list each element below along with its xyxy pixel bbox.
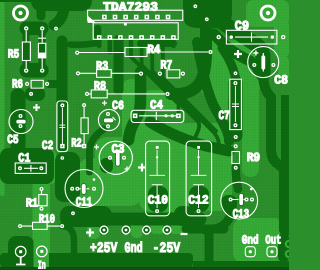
svg-text:R1: R1 (26, 197, 38, 211)
svg-text:C12: C12 (188, 193, 209, 207)
R4 leads (79, 51, 208, 54)
via top right blob 2 (205, 17, 209, 21)
pad R7 left (158, 72, 162, 76)
U1 pin 12 pad (155, 15, 160, 20)
pad R5 bottom (24, 68, 28, 72)
pad square Gnd2 (142, 226, 151, 235)
copper strip input channel (R1 R10 In) (33, 177, 51, 270)
copper pour centre tail below C10 (148, 203, 193, 234)
svg-text:C10: C10 (148, 193, 168, 207)
pad C9 right (281, 35, 285, 39)
plus mark left of C6 (102, 101, 107, 106)
svg-text:R10: R10 (39, 212, 55, 226)
C6 pads (106, 112, 110, 116)
copper pour right of C9 (274, 20, 289, 58)
svg-text:R3: R3 (96, 60, 108, 74)
wire R3 pad lobe down to C3 (129, 72, 141, 140)
copper pour around C3 (95, 137, 143, 179)
R10 leads (22, 225, 60, 227)
wire under IC vertical fat (114, 40, 124, 90)
pad D1 bottom (40, 68, 44, 72)
wire stub from U1 pin1 to column (70, 43, 97, 45)
plus mark left of C3 (94, 145, 99, 150)
C3 plus mark (125, 167, 130, 172)
svg-text:C6: C6 (112, 99, 124, 113)
D1 leads (38, 31, 46, 68)
U1 pin 1 pad (97, 35, 102, 40)
copper patch left of +25V pad (87, 220, 100, 239)
capacitor C2 body (57, 101, 68, 152)
copper band above power pads (94, 213, 200, 226)
board bottom band right (193, 261, 289, 268)
copper inside IC lower rect left (94, 25, 102, 39)
bright curl mark right edge lower (286, 251, 292, 257)
connector pad Gnd power 2 (143, 226, 151, 234)
wire diagonal 4 (163, 40, 216, 131)
connector pad In (37, 246, 48, 257)
via below C11 (71, 211, 75, 215)
connector pad Out (267, 247, 277, 257)
C4 internal symbol (139, 112, 176, 121)
capacitor C9 body (226, 30, 277, 44)
op-amp U1 TDA7293 outline upper (88, 10, 183, 20)
copper pour top right corner (246, 0, 289, 27)
C3 capsule (116, 150, 121, 167)
copper region input ground pad (8, 236, 34, 268)
board bottom edge dark (0, 267, 289, 270)
R5 leads (25, 31, 27, 68)
U1 pin 8 pad (134, 15, 139, 20)
R1 leads (41, 191, 43, 207)
copper right edge column (281, 95, 289, 235)
copper pour behind C4 label (143, 90, 182, 112)
wire C9 left pad (203, 29, 219, 37)
C1 internal symbol (24, 165, 38, 172)
wire diagonal 1 IC to C4 right pad (131, 40, 179, 113)
C4 inner dots (164, 114, 167, 117)
C4 left square pad (133, 114, 138, 119)
wire between C3 and C2 down to C11 (90, 129, 105, 172)
copper pour left of C7 (214, 82, 228, 122)
plus mark right of C5 (33, 104, 40, 111)
input ground stem (16, 257, 26, 265)
pad R3 left (76, 71, 80, 75)
wire branch down to C7 C13 lane (197, 42, 229, 141)
U1 upper pad row (102, 15, 170, 20)
copper C7 lane (229, 76, 243, 142)
pad R5 top (24, 26, 28, 30)
R9 pads (234, 144, 238, 148)
D1 cathode band (38, 53, 45, 58)
svg-text:C5: C5 (7, 133, 19, 147)
C11 lead line (79, 188, 81, 190)
pad R8 right (165, 92, 169, 96)
svg-text:C4: C4 (150, 99, 163, 113)
copper blob C13 left (221, 195, 237, 213)
wire blob to C8 stripe (214, 34, 258, 70)
svg-text:TDA7293: TDA7293 (103, 0, 158, 14)
svg-text:Gnd: Gnd (125, 241, 143, 257)
U1 pin 6 pad (123, 15, 128, 20)
svg-text:In: In (38, 259, 46, 270)
via below C7 (234, 135, 238, 139)
C13 via dot (250, 188, 253, 191)
board bottom edge shadow (0, 267, 289, 270)
pad R4 left (75, 51, 79, 55)
R3 leads (80, 72, 139, 74)
copper pour over C11 top (78, 158, 142, 206)
pad R3 right (139, 72, 143, 76)
wire C8 down right side (263, 72, 284, 230)
svg-text:C13: C13 (233, 207, 250, 221)
copper pour right of R3 R8 down to C6 (122, 79, 146, 151)
mounting hole top-right (261, 6, 275, 20)
copper blob right of C10 bottom (174, 206, 194, 226)
capacitor C5 outline (9, 110, 33, 134)
C2 internal symbol (59, 108, 65, 144)
R1 pads (40, 187, 44, 191)
C8 pads (252, 63, 256, 67)
pad square Gnd (122, 226, 131, 235)
resistor R10 body (33, 222, 48, 229)
svg-text:C8: C8 (274, 73, 288, 87)
copper lobe C3 lower left (100, 158, 113, 173)
wire IC blob down to R8 right pad (171, 24, 206, 94)
wire below C13 to power band (205, 212, 232, 230)
R2 pads (82, 103, 86, 107)
copper blob under C11 (60, 206, 112, 227)
svg-text:C11: C11 (76, 196, 93, 210)
U1 pin 11 pad (150, 35, 155, 40)
copper inside C10 bottom (148, 186, 168, 212)
svg-text:C1: C1 (18, 151, 30, 165)
resistor R9 body (232, 152, 240, 164)
copper strip segment right of C1 (45, 150, 57, 184)
copper horizontal under C13 (186, 225, 224, 234)
C10 pads (156, 146, 159, 149)
U1 pin 14 pad (166, 15, 171, 20)
C10 internal symbol (149, 150, 165, 208)
C13 capsule (239, 194, 244, 206)
capacitor C1 body (15, 163, 46, 173)
copper inside C12 bottom (189, 186, 209, 212)
pad R8 left (85, 92, 89, 96)
C13 pads (229, 198, 233, 202)
capacitor C6 outline (98, 109, 119, 130)
copper blob right of IC top (183, 0, 232, 28)
C13 lead lines (233, 199, 246, 201)
via below C2 (61, 156, 65, 160)
C11 capsule (81, 184, 86, 195)
C11 via dot (93, 178, 96, 181)
resistor R5 body (22, 42, 30, 61)
pad R6 right (45, 82, 49, 86)
R10 pads (18, 224, 22, 228)
U1 pin 4 pad (113, 15, 118, 20)
plus mark near C9 (234, 50, 242, 58)
copper pour bottom right (Gnd Out) (233, 218, 284, 263)
svg-text:Out: Out (265, 234, 281, 248)
copper pour around C7 R9 (242, 84, 259, 177)
connector pad -25V (163, 226, 171, 234)
svg-text:C7: C7 (219, 109, 230, 123)
wire R5 column (23, 30, 30, 68)
op-amp U1 outline lower (93, 23, 178, 40)
wire D1 column (39, 30, 46, 68)
resistor R7 body (167, 70, 180, 78)
wire from top edge to R5/D1 top pads (37, 1, 46, 16)
copper pour centre (power pour around C10 C12) (139, 123, 232, 211)
copper lobe in C11 left (55, 152, 80, 202)
C3 pads (108, 156, 112, 160)
U1 pin 13 pad (161, 35, 166, 40)
capacitor C11 outline (65, 170, 103, 208)
C12 pads (197, 146, 200, 149)
via top right blob 1 (193, 4, 197, 8)
C11 pads (70, 187, 74, 191)
svg-text:R7: R7 (160, 58, 172, 72)
board bottom copper bar (0, 253, 193, 267)
wire lobe under IC pads 12-15 (137, 40, 177, 47)
capacitor C8 outline (248, 47, 279, 78)
C2 pads (60, 103, 64, 107)
C9 inner dots (230, 35, 233, 38)
U1 pin 10 pad (145, 15, 150, 20)
pad R7 right (181, 72, 185, 76)
wire merged band above C10 C12 (150, 122, 229, 151)
pad C9 left (217, 35, 221, 39)
bright strip In column over bottom bar (34, 240, 50, 268)
resistor R1 body (39, 195, 47, 206)
minus mark right of -25V (181, 233, 188, 235)
board edge top (0, 0, 36, 2)
svg-text:R8: R8 (94, 80, 106, 94)
C4 right square pad (176, 114, 181, 119)
copper curl right edge bottom (278, 233, 289, 262)
wire lobe to R6 right pad (50, 80, 61, 88)
pad R4 right (208, 50, 212, 54)
via near U1 (124, 23, 127, 26)
wire R10 right pad down to bottom bar (62, 226, 74, 254)
plus mark left of C10 (138, 164, 146, 172)
C5 pads (19, 114, 23, 118)
wire diagonal 2 IC to C12 (142, 40, 200, 140)
svg-text:R5: R5 (8, 47, 19, 61)
connector pad Gnd power (122, 226, 130, 234)
wire diagonal 3 IC to R9 area (152, 40, 219, 147)
capacitor C4 body (131, 110, 184, 122)
R8 leads (89, 93, 165, 95)
C6 capsule (103, 118, 113, 123)
junction blob R5/D1 top (20, 22, 49, 36)
capacitor C12 body (186, 141, 212, 216)
wire C8 feed from top blob through C9 (220, 21, 263, 74)
C8 plus mark (253, 51, 258, 56)
wire down from -25V region (205, 232, 214, 268)
resistor R6 body (31, 80, 43, 88)
resistor R4 body (125, 48, 147, 57)
input ground pad (15, 246, 26, 257)
C5 capsule (16, 119, 26, 124)
pad D1 top (40, 26, 44, 30)
svg-text:Gnd: Gnd (242, 234, 259, 248)
C9 internal symbol (235, 33, 268, 42)
wire left column through C5 (11, 96, 26, 152)
wire IC pad stubs comb (99, 39, 173, 52)
via under R6 (29, 92, 33, 96)
svg-text:C9: C9 (235, 18, 250, 33)
U1 lower pad row (97, 35, 176, 40)
capacitor C7 body (230, 79, 242, 129)
plus mark above +25V (86, 229, 94, 237)
resistor R8 body (91, 90, 107, 98)
capacitor C10 body (146, 141, 170, 216)
pad square +25V (100, 226, 109, 235)
svg-text:C2: C2 (42, 139, 53, 153)
junction blob R5/D1 bottom (20, 63, 49, 78)
C12 internal symbol (191, 150, 207, 208)
C8 polarity capsule (261, 55, 266, 70)
copper band above IC left (31, 0, 92, 11)
resistor R2 body (81, 118, 88, 134)
C7 pads (233, 81, 237, 85)
bright curl marks right edge (286, 241, 292, 247)
resistor R3 body (97, 70, 112, 78)
copper pour stripes zone below IC blob (200, 40, 260, 98)
R2 leads (83, 107, 85, 144)
connector pad +25V (100, 226, 108, 234)
via above C7 (234, 71, 238, 75)
svg-text:R6: R6 (12, 77, 23, 91)
U1 pin 15 pad (171, 35, 176, 40)
pad R6 left (25, 82, 29, 86)
svg-text:C3: C3 (112, 143, 125, 157)
connector pad Gnd out (245, 247, 255, 257)
U1 pin 5 pad (118, 35, 123, 40)
copper pour left edge (0, 0, 5, 196)
U1 pin 3 pad (108, 35, 113, 40)
svg-text:-25V: -25V (153, 241, 181, 257)
wire C7 lane to C13 (236, 167, 238, 189)
diode D1 body (38, 43, 45, 58)
copper pour right of C8 (278, 56, 289, 82)
U1 pad hole dots (98, 16, 174, 38)
U1 pin 9 pad (139, 35, 144, 40)
C7 internal symbol (232, 86, 239, 122)
pad square -25V (163, 226, 172, 235)
svg-text:R2: R2 (71, 136, 82, 150)
U1 pin 2 pad (102, 15, 107, 20)
copper region around C1 (0, 148, 54, 184)
U1 pin 7 pad (129, 35, 134, 40)
wire column to C2 (57, 41, 68, 146)
capacitor C13 outline (221, 182, 258, 219)
svg-text:R4: R4 (147, 43, 160, 57)
wire stripe to C7 top (222, 48, 236, 86)
junction blob under R6 (25, 87, 45, 101)
U1 pin1 chamfer (88, 16, 96, 23)
svg-text:R9: R9 (247, 151, 261, 165)
mounting hole top-left (14, 6, 28, 20)
C1 pads (18, 166, 22, 170)
via on arm near D1 (54, 27, 58, 31)
wire arm band down to R5 blob (54, 5, 64, 25)
capacitor C3 outline (99, 141, 132, 174)
copper patch right of Gnd pad (131, 219, 143, 238)
svg-text:+25V: +25V (90, 241, 118, 257)
